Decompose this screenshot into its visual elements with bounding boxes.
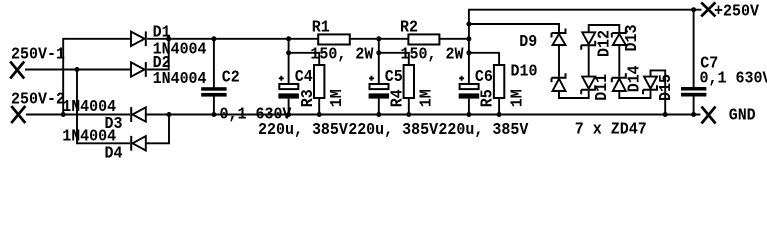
svg-text:D13: D13 (622, 25, 641, 52)
zener D15 (643, 77, 658, 95)
wire D2 cathode to corner up (147, 39, 169, 70)
diode D4 (131, 136, 146, 151)
svg-text:D9: D9 (519, 32, 537, 51)
node C6 top (466, 36, 471, 41)
wire R3 bottom lead (318, 98, 320, 115)
svg-text:D10: D10 (511, 62, 538, 81)
terminal X GND (702, 107, 716, 124)
node zener chain exit (663, 112, 668, 117)
svg-text:R3: R3 (298, 89, 317, 107)
resistor R1 (318, 34, 350, 44)
resistor R3 (314, 65, 324, 98)
capacitor C7 (681, 87, 706, 97)
wire branch 250V-1 down to D4 row (77, 70, 130, 144)
svg-text:D15: D15 (656, 74, 675, 101)
wire top bus R2 to C6 column (439, 38, 469, 40)
wire C4 column bottom (288, 99, 290, 115)
node C5 top (376, 36, 381, 41)
zener D13 (612, 29, 627, 46)
node D3 anode / D4 branch (167, 112, 172, 117)
wire D13 to D14 (618, 45, 620, 77)
svg-text:7 x ZD47: 7 x ZD47 (575, 120, 647, 139)
wire D10 to bottom jog to D11 (559, 91, 589, 98)
wire C4 column top (288, 39, 290, 84)
svg-text:1N4004: 1N4004 (62, 97, 116, 116)
svg-text:1M: 1M (508, 89, 527, 107)
wire zener entry rail y=24 (469, 24, 559, 32)
capacitor C6 (459, 76, 480, 99)
svg-text:+250V: +250V (714, 2, 759, 21)
terminal X +250V (701, 2, 715, 16)
svg-text:250V-1: 250V-1 (11, 45, 65, 64)
svg-text:D12: D12 (595, 30, 614, 57)
node R5 bottom (497, 112, 502, 117)
wire C6 column top (468, 39, 470, 84)
node C2 bottom (211, 112, 216, 117)
svg-text:R2: R2 (400, 18, 418, 37)
node R4 bottom (406, 112, 411, 117)
node C4 top (286, 36, 291, 41)
zener D10 (552, 73, 567, 91)
svg-text:D14: D14 (625, 65, 644, 92)
diode D3 (131, 107, 146, 122)
svg-text:R5: R5 (478, 89, 497, 107)
zener D12 (581, 32, 596, 50)
node D2 cathode / top bus (166, 36, 171, 41)
node zener rail tee (466, 22, 471, 27)
wire R4 bottom lead (408, 98, 410, 115)
wire top bus R1 to R2 (350, 38, 409, 40)
wire C2 top lead (213, 39, 215, 88)
wire C2 bottom lead (213, 97, 215, 115)
diode D2 (131, 62, 146, 77)
node C4 bottom (286, 112, 291, 117)
capacitor C5 (369, 76, 390, 99)
svg-text:D4: D4 (105, 144, 123, 162)
zener D11 (581, 77, 596, 95)
capacitor C2 (201, 87, 226, 96)
wire D14 bottom jog to D15 (619, 91, 650, 98)
wire R5 tee (469, 53, 499, 65)
node 250V-2 split (61, 112, 66, 117)
svg-text:250V-2: 250V-2 (11, 90, 65, 109)
wire D15 exit jog to bottom bus (651, 70, 666, 114)
svg-text:1M: 1M (417, 89, 436, 107)
zener D9 (552, 29, 567, 46)
wire D12 top jog to D13 (589, 25, 620, 32)
svg-text:C5: C5 (385, 67, 403, 86)
capacitor C4 (278, 76, 299, 99)
wire 250V-1 row y=69.5 (25, 69, 131, 71)
svg-text:C2: C2 (222, 68, 240, 87)
node C6 bottom (466, 112, 471, 117)
wire R4 tee (379, 53, 409, 65)
node 250V-1 split (75, 67, 80, 72)
wire top bus D1 cathode to R1 (147, 38, 318, 40)
terminal X 250V-2 (11, 106, 25, 123)
wire C7 bottom lead (693, 97, 695, 115)
wire bottom bus D3 to GND (146, 114, 701, 116)
svg-text:R4: R4 (388, 89, 407, 107)
wire C5 column bottom (378, 99, 380, 115)
svg-text:220u, 385V: 220u, 385V (258, 120, 348, 139)
wire R3 tee (289, 53, 320, 65)
resistor R2 (408, 34, 439, 44)
svg-text:R1: R1 (312, 18, 330, 37)
diode D1 (131, 31, 146, 46)
svg-text:C4: C4 (295, 67, 313, 86)
svg-text:C6: C6 (475, 67, 493, 86)
node R3 bottom (317, 112, 322, 117)
node R3 tee (286, 50, 291, 55)
resistor R5 (494, 65, 504, 98)
resistor R4 (404, 65, 414, 98)
svg-text:150, 2W: 150, 2W (401, 45, 464, 64)
node C2 top (211, 36, 216, 41)
node C7 bottom (691, 112, 696, 117)
svg-text:220u, 385V: 220u, 385V (438, 120, 528, 139)
wire 250V-2 row to D3 (26, 114, 130, 116)
wire top bus y=38.8 from corner to R1 (63, 39, 131, 115)
wire D11 to D12 (588, 46, 590, 76)
wire C7 top lead (693, 10, 695, 88)
svg-text:220u, 385V: 220u, 385V (348, 120, 438, 139)
wire C5 column top (378, 39, 380, 84)
node C7 top (691, 7, 696, 12)
svg-text:GND: GND (729, 106, 756, 125)
wire D4 anode up to bottom bus (146, 115, 169, 144)
node C5 bottom (376, 112, 381, 117)
svg-text:1M: 1M (327, 89, 346, 107)
svg-text:D11: D11 (592, 74, 611, 101)
node R4 tee (376, 50, 381, 55)
svg-text:1N4004: 1N4004 (153, 69, 207, 88)
terminal X 250V-1 (10, 62, 24, 79)
zener D14 (612, 73, 627, 91)
wire +250V top rail (469, 10, 702, 39)
svg-text:0,1 630V: 0,1 630V (700, 69, 767, 88)
svg-text:150, 2W: 150, 2W (310, 45, 373, 64)
node R5 tee (466, 50, 471, 55)
wire D9 to D10 (558, 45, 560, 77)
wire R5 bottom lead (498, 98, 500, 115)
wire C6 column bottom (468, 99, 470, 115)
